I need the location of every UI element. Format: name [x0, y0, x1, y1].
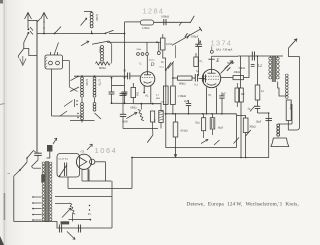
svg-text:9Ω: 9Ω — [241, 93, 244, 96]
svg-text:2μ: 2μ — [248, 108, 251, 111]
svg-text:MΩ: MΩ — [156, 97, 160, 100]
svg-text:40μ: 40μ — [161, 100, 166, 103]
svg-text:1010: 1010 — [98, 47, 102, 54]
svg-text:10μF: 10μF — [217, 127, 223, 130]
svg-text:L2: L2 — [258, 64, 262, 68]
svg-text:20kΩ: 20kΩ — [234, 70, 241, 74]
svg-text:0,1: 0,1 — [195, 84, 199, 87]
svg-text:~: ~ — [8, 172, 11, 177]
svg-text:H₂: H₂ — [146, 95, 149, 98]
svg-text:N₆: N₆ — [200, 60, 203, 63]
svg-text:Gl: Gl — [81, 149, 84, 153]
svg-text:M.Br: M.Br — [137, 49, 142, 51]
svg-text:Pₖ: Pₖ — [87, 212, 92, 216]
svg-text:53: 53 — [123, 69, 127, 73]
svg-text:10μF: 10μF — [256, 121, 262, 124]
svg-text:6A1 ↗30 mA: 6A1 ↗30 mA — [216, 48, 233, 52]
svg-text:50kΩ: 50kΩ — [239, 66, 246, 70]
svg-text:G: G — [140, 63, 142, 66]
svg-text:1064: 1064 — [95, 146, 118, 155]
svg-text:800Ω: 800Ω — [99, 66, 106, 70]
svg-text:H₂: H₂ — [209, 94, 212, 97]
svg-text:1374: 1374 — [211, 39, 233, 48]
svg-text:Gl 4V Ka: Gl 4V Ka — [59, 158, 69, 161]
svg-text:60 kΩ: 60 kΩ — [181, 129, 188, 133]
svg-text:100kΩ: 100kΩ — [161, 15, 169, 19]
svg-text:50Ω: 50Ω — [195, 122, 200, 125]
svg-text:0,770: 0,770 — [98, 79, 102, 86]
svg-text:Lautspr.: Lautspr. — [289, 103, 292, 111]
svg-text:D: D — [150, 63, 155, 68]
svg-text:80kΩ: 80kΩ — [179, 81, 186, 85]
svg-text:150kΩ: 150kΩ — [178, 94, 186, 98]
svg-text:600Ω: 600Ω — [131, 107, 137, 110]
svg-text:Detewe, Europa 124 W, Wechsels: Detewe, Europa 124 W, Wechselstrom,′1 Kr… — [187, 201, 299, 207]
svg-text:500pF: 500pF — [227, 61, 235, 65]
svg-text:0,5A: 0,5A — [160, 66, 165, 69]
svg-text:6α,0,5: 6α,0,5 — [149, 60, 155, 62]
svg-text:50kΩ: 50kΩ — [249, 125, 256, 129]
svg-text:1M: 1M — [136, 92, 139, 96]
svg-text:1,5KΩ: 1,5KΩ — [142, 26, 150, 30]
svg-text:0,540: 0,540 — [85, 79, 89, 86]
svg-text:100pF: 100pF — [191, 35, 199, 39]
svg-text:0,1M: 0,1M — [166, 43, 172, 46]
